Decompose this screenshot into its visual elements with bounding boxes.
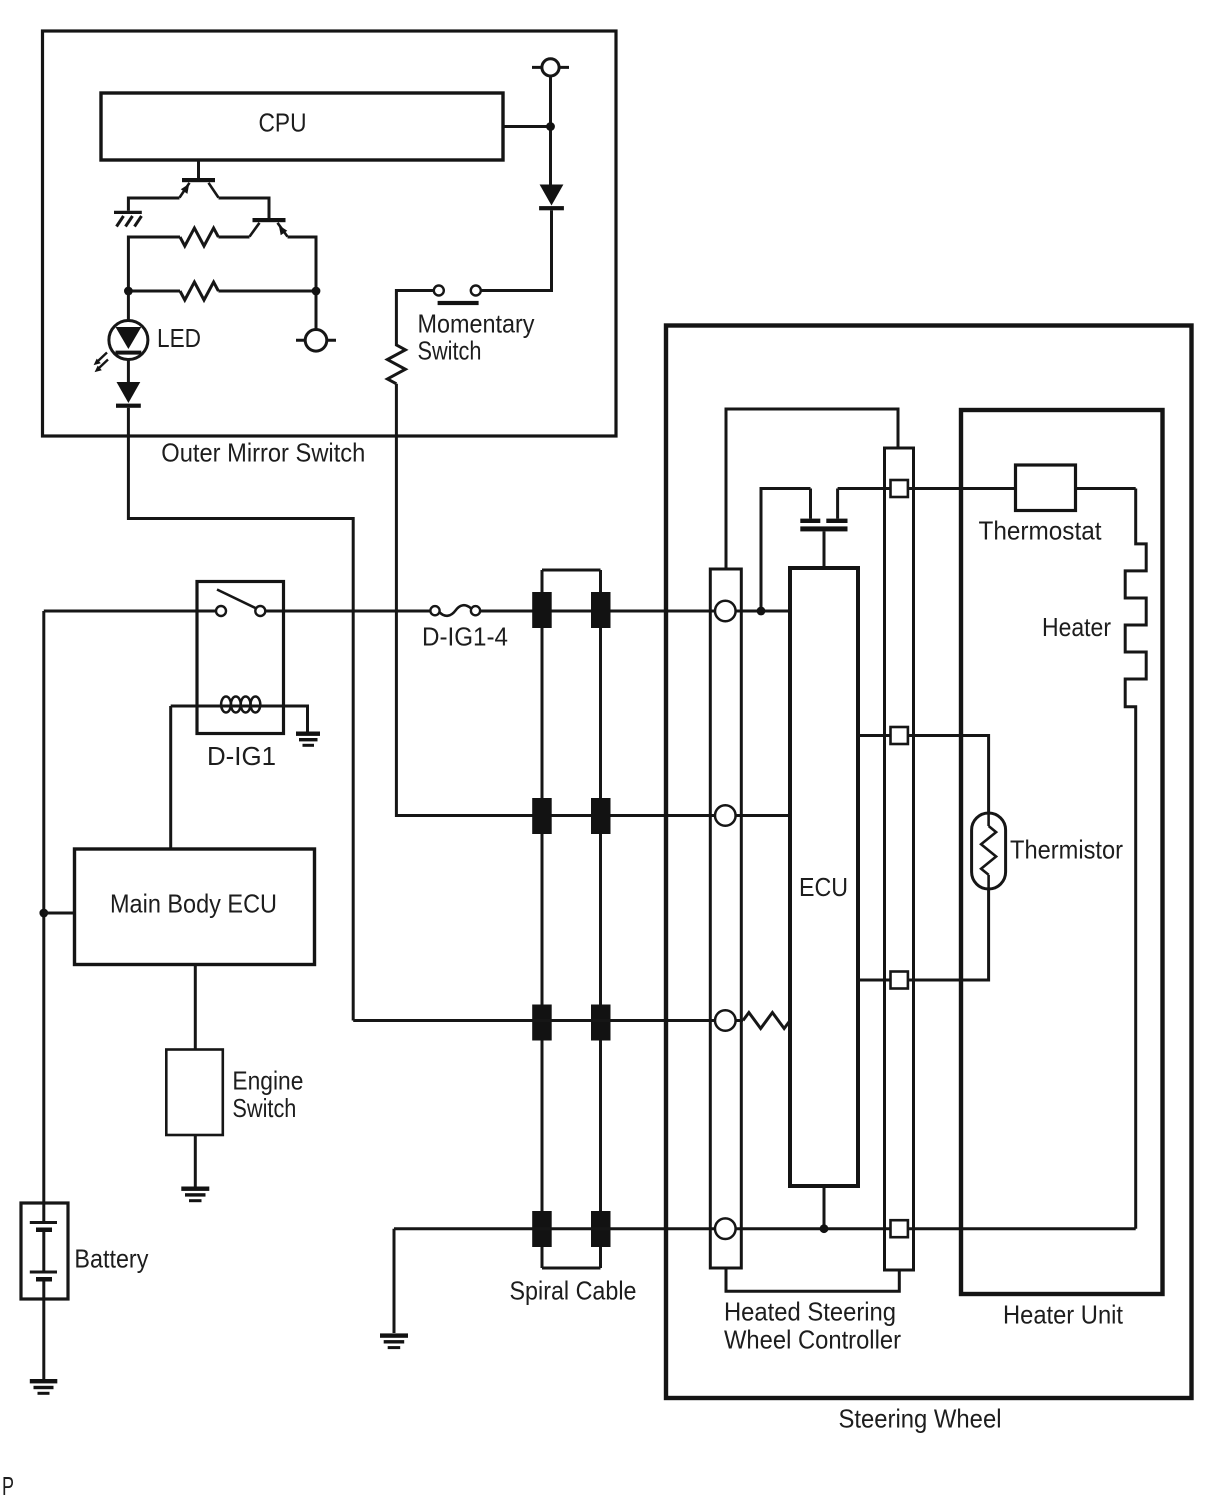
svg-text:Thermostat: Thermostat <box>979 516 1103 546</box>
junction dot CPU right <box>546 122 555 131</box>
controller loop bottom <box>726 1268 899 1291</box>
spiral cable bottom bridge <box>542 1267 601 1270</box>
connector B pin 2 square <box>891 727 908 744</box>
wire battery internal segments <box>42 1232 45 1379</box>
wire Q1 emitter to chassis ground <box>128 198 179 211</box>
wire row3 resistor R4 <box>743 1013 790 1029</box>
wire R2 left to node <box>128 290 180 293</box>
controller loop top <box>726 409 898 569</box>
junction dot row4 <box>820 1224 829 1233</box>
wire ECU bottom stub <box>823 1186 826 1229</box>
spiral cable pads row4 <box>532 1211 610 1247</box>
diode D1 <box>116 382 141 408</box>
svg-text:Wheel Controller: Wheel Controller <box>724 1325 901 1355</box>
svg-text:Heater: Heater <box>1042 612 1111 642</box>
ground engine switch <box>181 1187 209 1203</box>
relay contact arm <box>217 590 257 609</box>
wire Q3 drain stem to ECU <box>823 531 826 568</box>
junction dot gate node <box>757 607 766 616</box>
svg-text:P: P <box>2 1471 14 1498</box>
spiral cable right conductor <box>599 570 602 1268</box>
relay D-IG1 box <box>197 582 284 734</box>
wire Q2 emitter to right vertical <box>288 237 317 330</box>
wire thermistor to connector B pin3 <box>908 889 989 980</box>
wire battery column <box>42 611 45 1223</box>
resistor R2 <box>180 282 218 300</box>
chassis ground G1 <box>114 212 142 226</box>
wire CPU base stub to Q1 <box>197 160 200 178</box>
spiral cable left conductor <box>541 570 544 1268</box>
spiral cable pads row2 <box>532 798 610 834</box>
svg-text:Steering Wheel: Steering Wheel <box>839 1404 1002 1434</box>
wire connector B pin2 to thermistor <box>908 736 989 814</box>
thermistor RT1 <box>972 813 1006 889</box>
spiral cable pads row1 <box>532 592 610 628</box>
wire node to LED <box>127 291 130 321</box>
transistor Q2 <box>250 218 288 237</box>
wire gate node vertical <box>761 489 811 612</box>
svg-text:ECU: ECU <box>799 872 848 902</box>
svg-text:Heater Unit: Heater Unit <box>1003 1300 1124 1330</box>
connector B strip <box>885 448 914 1270</box>
thermostat <box>1016 465 1076 511</box>
wire LED to diode D1 <box>127 360 130 383</box>
wire row4 ground branch <box>393 1229 396 1333</box>
heater unit box <box>961 410 1163 1294</box>
connector B pin 1 square <box>891 480 908 497</box>
ground spiral row4 <box>380 1333 408 1349</box>
wire row1 from battery branch <box>44 610 217 613</box>
wire momentary left to resistor R3 <box>396 291 433 342</box>
terminal T1 circle-bar <box>532 59 569 76</box>
diode D2 <box>539 185 564 211</box>
svg-text:Thermistor: Thermistor <box>1010 835 1123 865</box>
svg-text:Momentary: Momentary <box>418 309 535 339</box>
transistor pair Q3 gates <box>800 489 847 532</box>
svg-text:D-IG1-4: D-IG1-4 <box>422 622 508 652</box>
Main Body ECU box <box>75 849 315 965</box>
junction dot main body ecu feed <box>39 909 48 918</box>
engine switch box <box>166 1050 223 1136</box>
connector A pin 3 <box>715 1010 736 1031</box>
wire R2 right to node <box>218 290 316 293</box>
wire thermostat to heater <box>1076 487 1136 490</box>
transistor Q1 <box>180 178 219 198</box>
steering wheel enclosure <box>666 326 1192 1399</box>
wire Q1 collector to Q2 base <box>219 198 270 218</box>
wire Q2 base row left segment <box>218 236 249 239</box>
spiral cable pads row3 <box>532 1005 610 1041</box>
relay coil L1 <box>171 697 308 732</box>
wire Main Body ECU to engine switch <box>194 965 197 1050</box>
spiral cable top bridge <box>542 569 601 572</box>
wire row1 relay to fuse <box>265 610 430 613</box>
wire gate2 to connector B pin1 <box>838 487 891 490</box>
connector A pin 4 <box>715 1218 736 1239</box>
wire terminal to diode D2 <box>549 76 552 185</box>
svg-text:Outer Mirror Switch: Outer Mirror Switch <box>161 438 365 468</box>
wire R1 to node x128 <box>128 237 180 291</box>
junction dot right branch <box>312 287 321 296</box>
svg-text:Engine: Engine <box>232 1066 303 1096</box>
wire dot to Main Body ECU <box>44 912 75 915</box>
svg-text:Switch: Switch <box>232 1093 296 1123</box>
LED D3 <box>94 321 148 373</box>
ground battery <box>30 1379 58 1395</box>
wire ECU to connector B pin3 <box>858 979 891 982</box>
ECU box <box>790 568 858 1186</box>
battery <box>21 1203 68 1299</box>
svg-text:Spiral Cable: Spiral Cable <box>510 1276 637 1306</box>
wire row3 main <box>353 1019 743 1022</box>
terminal T2 circle-bar <box>296 330 336 352</box>
svg-text:Battery: Battery <box>74 1244 148 1274</box>
svg-text:Heated Steering: Heated Steering <box>724 1297 896 1327</box>
outer mirror switch enclosure <box>43 31 617 436</box>
wire ECU to connector B pin2 <box>858 734 891 737</box>
wire coil to Main Body ECU <box>169 706 172 849</box>
connector A pin 2 <box>715 805 736 826</box>
relay contact circles <box>216 606 226 616</box>
resistor R3 <box>387 342 405 384</box>
svg-text:D-IG1: D-IG1 <box>207 741 276 771</box>
wire D2 to momentary switch <box>481 210 552 290</box>
connector A strip <box>710 569 741 1268</box>
fuse D-IG1-4 <box>430 605 480 616</box>
svg-text:Switch: Switch <box>418 336 482 366</box>
connector A pin 1 <box>715 601 736 622</box>
wire CPU right to junction <box>503 125 551 128</box>
junction dot node LED top <box>124 287 133 296</box>
svg-text:Main Body ECU: Main Body ECU <box>110 889 277 919</box>
wire row1 fuse to ECU <box>480 610 790 613</box>
CPU U1 <box>101 93 503 160</box>
svg-text:CPU: CPU <box>259 108 307 138</box>
wire connector B pin1 to thermostat <box>908 487 1016 490</box>
wire engine switch to ground <box>194 1135 197 1187</box>
wire D1 down out of box to corner <box>128 408 353 1021</box>
momentary switch SW1 <box>434 286 481 306</box>
connector B pin 4 square <box>891 1220 908 1237</box>
resistor R1 <box>180 228 218 246</box>
svg-text:LED: LED <box>157 323 201 353</box>
ground relay coil <box>296 732 320 747</box>
heater element <box>1125 489 1146 1229</box>
wire row4 main <box>394 1227 1136 1230</box>
wire R3 down to row2 corner <box>396 384 790 816</box>
connector B pin 3 square <box>891 972 908 989</box>
